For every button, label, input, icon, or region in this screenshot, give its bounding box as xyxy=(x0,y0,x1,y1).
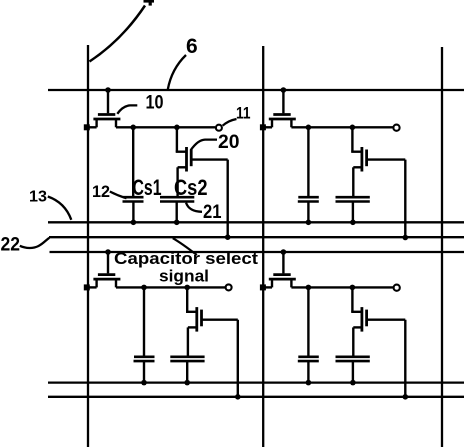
node: row2-right cap2 bottom junction xyxy=(350,380,356,386)
label 12 leader xyxy=(110,192,127,199)
wire: right column data line xyxy=(441,47,443,447)
terminal: open circle output node (row1 right) xyxy=(393,125,399,131)
terminal 11: open circle output node xyxy=(216,125,222,131)
node: row1-left source junction on column xyxy=(84,124,90,130)
wire: row2-right source stub to column line xyxy=(261,286,272,288)
wire: row1-right gate return to select line 22 xyxy=(404,160,406,238)
node: Cs1 bottom junction on line 13 xyxy=(131,220,137,226)
node: row2-right cap1 bottom junction xyxy=(306,380,312,386)
node: row2-right cap1 top junction xyxy=(306,285,312,291)
node: row2-left cap1 bottom junction xyxy=(141,380,147,386)
node: row1-right cap2 bottom junction on line 13 xyxy=(350,220,356,226)
node: row2-right gate junction on row2 gate line xyxy=(281,249,287,255)
node: row1-right gate return junction on line 22 xyxy=(403,235,409,241)
terminal: open circle output node (row2 left) xyxy=(226,284,232,290)
label: capacitor select signal leader xyxy=(173,238,197,255)
capacitor (row2 right, Cs1 type) xyxy=(298,287,319,382)
node: row2-right gate return junction xyxy=(403,394,409,400)
svg-text:Cs2: Cs2 xyxy=(174,175,208,200)
svg-text:Capacitor select: Capacitor select xyxy=(114,250,259,268)
terminal: open circle output node (row2 right) xyxy=(394,285,400,291)
wire: row1-left source stub to column line xyxy=(86,126,96,128)
wire: row-2 gate bus line xyxy=(50,251,464,253)
svg-text:Cs1: Cs1 xyxy=(133,175,162,200)
wire: row2-left storage node wire xyxy=(116,286,225,288)
node: Cs2 bottom junction on line 13 xyxy=(174,220,180,226)
label 22 leader xyxy=(20,238,50,248)
svg-text:22: 22 xyxy=(1,235,21,256)
node: row2-left cap2 bottom junction xyxy=(184,380,190,386)
capacitor (row1 right, Cs2 type) xyxy=(336,197,370,222)
transistor (row1 right pixel TFT) xyxy=(269,90,296,127)
wire: row-1 gate bus line (net 6) xyxy=(48,89,464,91)
node: row1-right source junction on column xyxy=(260,124,266,130)
node: row2-left cap2 branch junction xyxy=(184,285,190,291)
wire: leader curve to node 4 xyxy=(90,6,146,62)
transistor (row2 left pixel TFT) xyxy=(93,252,120,287)
wire: row2-right gate return to row2 select line xyxy=(404,320,406,397)
node: Cs1 top junction xyxy=(130,125,136,131)
wire: row-2 capacitor select line xyxy=(48,396,464,398)
transistor (row2 right capacitor-select TFT) xyxy=(351,287,405,356)
label 21 leader xyxy=(186,203,202,212)
node: row2-left cap1 top junction xyxy=(141,285,147,291)
label 10 leader xyxy=(117,105,137,113)
transistor (row2 right pixel TFT) xyxy=(269,252,296,287)
svg-text:signal: signal xyxy=(159,268,209,286)
svg-text:6: 6 xyxy=(186,35,198,58)
node: row2-left gate return junction xyxy=(235,394,241,400)
node: row1-left gate return junction on line 22 xyxy=(225,234,231,240)
transistor (row1 right capacitor-select TFT) xyxy=(351,127,405,197)
node: row2-right source junction on column xyxy=(260,284,266,290)
capacitor (row1 right, Cs1 type) xyxy=(298,127,319,222)
capacitor (row2 left, Cs1 type) xyxy=(134,287,155,382)
svg-text:21: 21 xyxy=(203,202,222,223)
wire: row1-left storage node wire xyxy=(116,126,215,128)
node: row1-right cap2 branch junction xyxy=(350,125,356,131)
label 11 leader xyxy=(223,119,237,126)
transistor (row2 left capacitor-select TFT) xyxy=(186,287,238,356)
wire: capacitor common line (net 13) xyxy=(48,221,464,223)
node: row1-left gate junction on line 6 xyxy=(105,87,111,93)
capacitor Cs2 (row1 left) xyxy=(160,197,194,222)
wire: capacitor select line (net 22) xyxy=(49,236,464,238)
capacitor (row2 left, Cs2 type) xyxy=(170,357,204,383)
node: row1-right cap1 top junction xyxy=(306,125,312,131)
transistor 20 (row1 left capacitor-select TFT) xyxy=(176,127,228,197)
wire: row2-left source stub to column line xyxy=(86,286,96,288)
node: row2-left source junction on column xyxy=(84,284,90,290)
node: row1-right cap1 bottom junction on line 13 xyxy=(306,220,312,226)
node 4: clipped reference glyph at top edge xyxy=(144,0,155,6)
wire: row1-left gate return to select line 22 xyxy=(226,160,228,238)
transistor 10 (row1 left pixel TFT) xyxy=(93,90,120,127)
node: row2-right cap2 branch junction xyxy=(350,285,356,291)
capacitor Cs1 (row1 left) xyxy=(123,127,144,222)
svg-text:10: 10 xyxy=(146,93,164,114)
svg-text:12: 12 xyxy=(92,182,110,201)
svg-text:20: 20 xyxy=(218,132,240,153)
wire: left column data line xyxy=(87,45,89,447)
wire: middle column data line xyxy=(262,46,264,447)
label 6 leader xyxy=(168,55,186,90)
node: Cs2 branch junction xyxy=(174,125,180,131)
wire: row-2 capacitor common line xyxy=(48,381,464,383)
label 20 leader xyxy=(191,140,217,150)
wire: row2-right storage node wire xyxy=(291,286,393,288)
wire: row1-right storage node wire xyxy=(291,126,393,128)
wire: row2-left gate return to row2 select line xyxy=(237,320,239,397)
svg-text:13: 13 xyxy=(29,189,47,206)
capacitor (row2 right, Cs2 type) xyxy=(336,357,370,383)
node: row2-left gate junction on row2 gate line xyxy=(105,249,111,255)
node: row1-right gate junction on line 6 xyxy=(281,87,287,93)
wire: row1-right source stub to column line xyxy=(261,126,272,128)
svg-text:11: 11 xyxy=(236,103,251,122)
label 13 leader xyxy=(48,197,72,220)
